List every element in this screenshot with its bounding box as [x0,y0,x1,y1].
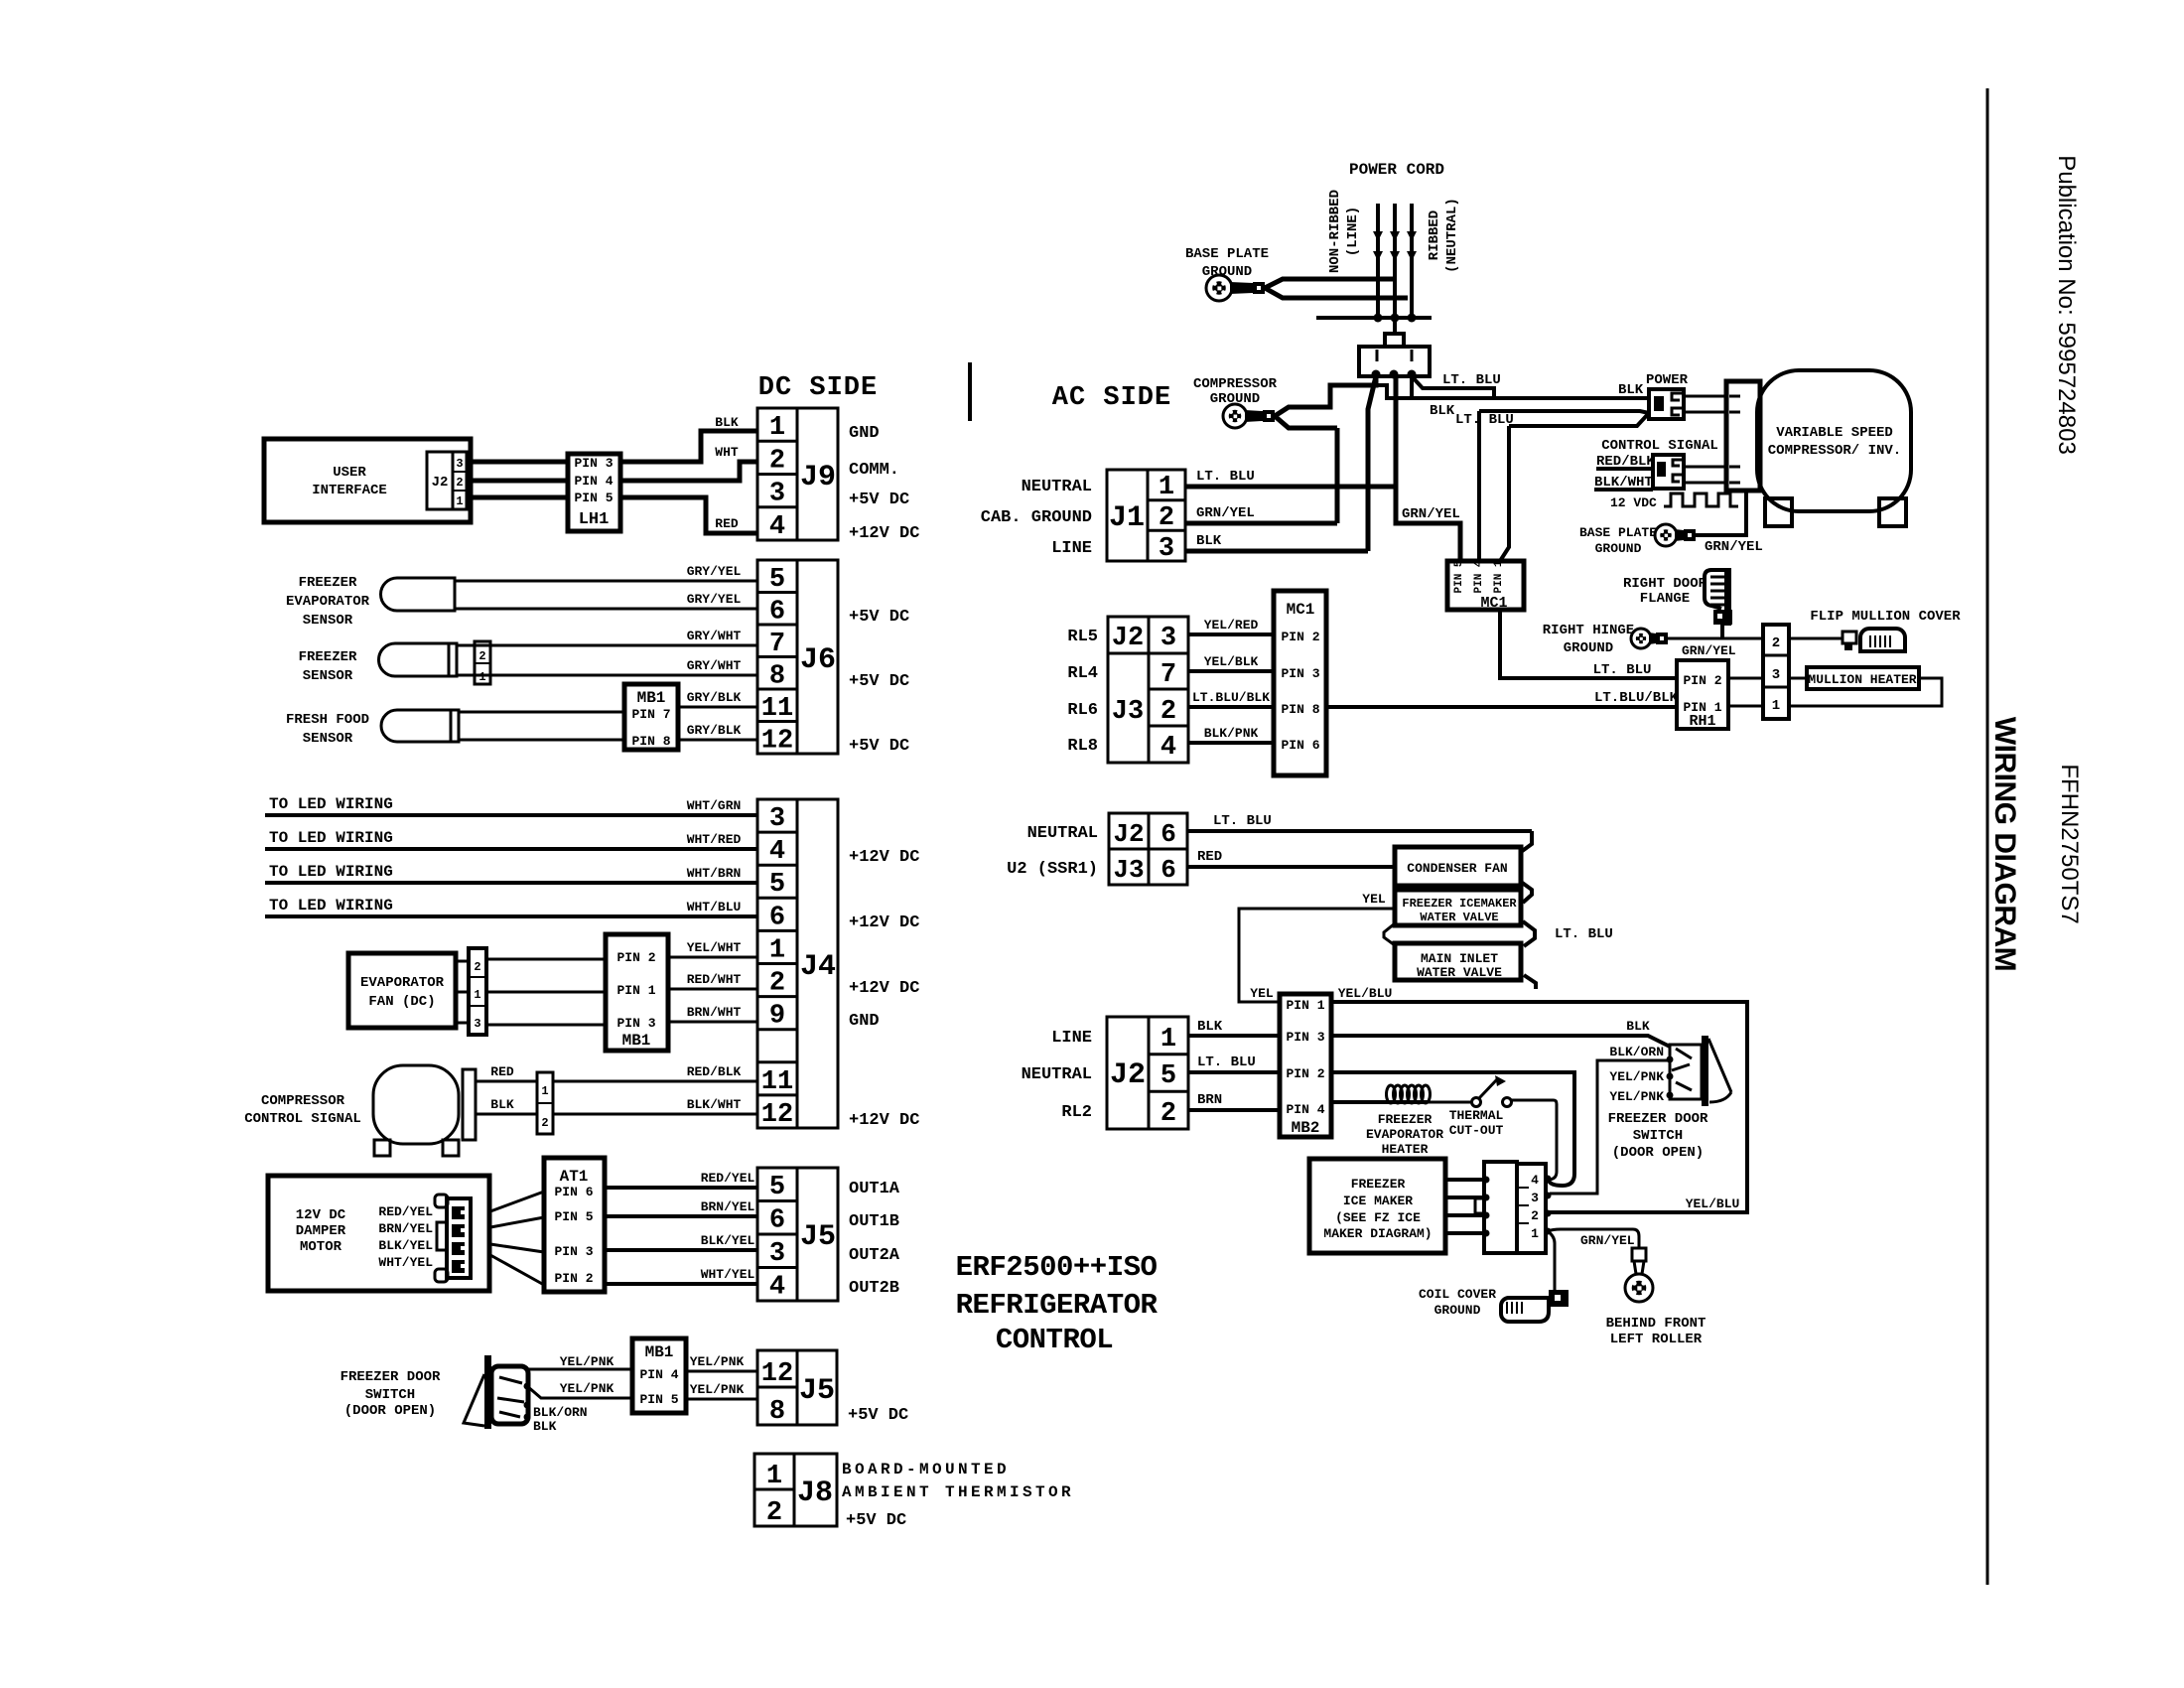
svg-text:BLK/YEL: BLK/YEL [378,1238,433,1253]
svg-text:AMBIENT THERMISTOR: AMBIENT THERMISTOR [842,1483,1074,1501]
svg-text:POWER CORD: POWER CORD [1349,161,1444,179]
base plate ground lug (top) [1206,275,1232,301]
wire BLK compressor [476,1113,537,1116]
svg-text:PIN 5: PIN 5 [639,1392,678,1407]
connector J2 (line/neutral/RL2) [1107,1017,1188,1129]
svg-text:BRN/WHT: BRN/WHT [687,1005,742,1020]
svg-text:RL8: RL8 [1067,737,1098,756]
wire fresh food sensor to MB1 pin7 [459,711,624,714]
svg-text:FRESH FOOD: FRESH FOOD [286,712,369,728]
svg-text:PIN 2: PIN 2 [1286,1066,1324,1081]
svg-text:BLK/ORN: BLK/ORN [533,1405,588,1420]
power plug tab [1385,334,1404,347]
svg-text:FREEZER DOOR: FREEZER DOOR [341,1369,441,1385]
svg-text:YEL/PNK: YEL/PNK [560,1381,614,1396]
wire damper to AT1 PIN 3 [490,1244,544,1252]
wire LT. BLU to MB2 PIN 2 [1188,1070,1280,1074]
svg-text:PIN 8: PIN 8 [631,734,670,749]
svg-text:LT. BLU: LT. BLU [1455,412,1514,428]
wire LT. BLU plug to junction [1412,376,1494,398]
wire LT. BLU down to MC1 PIN 4 [1477,411,1481,561]
svg-text:MB1: MB1 [622,1032,651,1050]
svg-text:WHT/RED: WHT/RED [687,832,742,847]
freezer evaporator heater coil [1387,1085,1396,1103]
connector LH1 [568,454,620,531]
damper connector [447,1198,471,1278]
svg-text:PIN 4: PIN 4 [1473,560,1485,593]
svg-text:USER: USER [333,465,366,481]
wire mullion heater loop to strip pin1 [1789,678,1942,706]
svg-text:12: 12 [761,1359,793,1389]
svg-text:8: 8 [769,1397,785,1427]
svg-text:LT. BLU: LT. BLU [1197,1055,1256,1070]
wire GRN/YEL J1 pin2 [1185,521,1337,526]
svg-text:LT. BLU: LT. BLU [1196,469,1255,485]
wire LT. BLU to POWER connector lower pin [1479,411,1649,413]
wire YEL/WHT to J4 pin1 [668,956,757,959]
svg-text:GRN/YEL: GRN/YEL [1580,1233,1635,1248]
connector strip 2/3/1 [1763,625,1789,719]
wire YEL/BLU loop MB2 PIN1 to ice maker pin2 [1331,1002,1747,1212]
wire RED LH1 to J9 pin4 [620,497,757,533]
svg-text:J2: J2 [432,475,449,491]
wire YEL to MB2 PIN 1 [1239,909,1395,1002]
svg-text:PIN 1: PIN 1 [616,983,655,998]
wire LT. BLU neutral bus [1187,829,1532,833]
svg-text:FLIP MULLION COVER: FLIP MULLION COVER [1810,609,1961,625]
svg-text:PIN 1: PIN 1 [1286,998,1324,1013]
svg-text:CONTROL SIGNAL: CONTROL SIGNAL [244,1111,361,1127]
svg-text:SENSOR: SENSOR [303,668,353,684]
svg-text:5: 5 [769,1173,785,1202]
wire GRN/YEL ice maker pin1 to roller lug [1548,1229,1639,1249]
svg-text:NEUTRAL: NEUTRAL [1027,824,1098,843]
svg-text:BRN/YEL: BRN/YEL [378,1221,433,1236]
svg-text:RED/YEL: RED/YEL [378,1204,433,1219]
svg-text:DAMPER: DAMPER [296,1223,346,1239]
power cord line 2 [1393,204,1397,318]
variable speed compressor blob [1757,370,1911,511]
wire fan to connector pin2 [456,960,469,963]
svg-text:AT1: AT1 [560,1168,589,1186]
svg-text:PIN 6: PIN 6 [1281,738,1319,753]
svg-text:BRN/YEL: BRN/YEL [701,1199,755,1214]
wire J2 pin2 to LH1 PIN 4 [467,479,568,484]
svg-text:GRY/BLK: GRY/BLK [687,690,742,705]
freezer ice maker box [1309,1159,1445,1253]
power plug body [1359,347,1430,376]
svg-text:12: 12 [761,727,793,757]
svg-text:EVAPORATOR: EVAPORATOR [1366,1127,1443,1142]
svg-text:11: 11 [761,1067,793,1097]
wire BLK J1 pin3 [1185,549,1368,554]
svg-text:4: 4 [769,512,785,542]
svg-text:PIN 2: PIN 2 [554,1271,593,1286]
svg-text:FREEZER: FREEZER [299,649,357,665]
svg-text:SENSOR: SENSOR [303,613,353,629]
wire LT. BLU MC1 to RH1 PIN 2 [1500,610,1677,678]
svg-text:BLK: BLK [1618,382,1644,398]
svg-text:COMPRESSOR/ INV.: COMPRESSOR/ INV. [1768,443,1901,459]
svg-text:3: 3 [1531,1191,1539,1205]
wire GRY/YEL to J6 pin5 [455,580,757,583]
svg-text:GRY/WHT: GRY/WHT [687,658,742,673]
wire LT. BLU J1 pin1 neutral [1185,485,1398,490]
svg-text:BLK: BLK [490,1097,514,1112]
wire BLK LH1 to J9 pin1 [620,431,757,462]
svg-text:GROUND: GROUND [1434,1303,1481,1318]
svg-text:+5V DC: +5V DC [849,672,909,691]
svg-text:FREEZER: FREEZER [299,575,357,591]
svg-text:FAN (DC): FAN (DC) [368,994,435,1010]
svg-text:J5: J5 [799,1374,835,1408]
svg-text:RED: RED [490,1064,514,1079]
svg-text:1: 1 [456,494,463,508]
svg-text:GND: GND [849,424,880,443]
svg-text:MB1: MB1 [637,689,666,707]
compressor foot right (inv) [1879,498,1906,526]
svg-text:11: 11 [761,694,793,724]
svg-text:RED: RED [1197,849,1222,865]
wire RED compressor [476,1080,537,1083]
wire BRN/YEL to J5 pin6 [605,1214,757,1218]
power cord line 1 [1376,204,1380,318]
svg-text:2: 2 [1159,503,1174,533]
flip mullion cover icon [1860,629,1905,651]
wire power connector to inverter (top) [1684,395,1726,398]
svg-text:RED: RED [715,516,739,531]
svg-text:2: 2 [766,1498,782,1528]
wire GRY/WHT to J6 pin8 [457,674,757,677]
wire GRY/BLK to J6 pin12 [678,739,757,742]
wire GRN/YEL base plate to inverter [1696,491,1746,535]
connector J6 [757,560,838,754]
svg-text:CONTROL: CONTROL [996,1324,1113,1356]
separator line between DC and AC side [968,362,972,421]
wire BLK/ORN to ice maker pin3 [1550,1060,1670,1194]
svg-text:YEL/WHT: YEL/WHT [687,940,742,955]
connector J2/J3 (relays) [1108,617,1188,763]
svg-text:YEL/PNK: YEL/PNK [690,1354,745,1369]
compressor foot left (inv) [1765,498,1792,526]
svg-text:LT. BLU: LT. BLU [1555,926,1613,942]
wire BLK/YEL to J5 pin3 [605,1248,757,1252]
svg-text:GRN/YEL: GRN/YEL [1705,539,1763,555]
svg-text:WHT/BRN: WHT/BRN [687,866,742,881]
svg-text:BLK/PNK: BLK/PNK [1204,726,1259,741]
svg-text:2: 2 [769,446,785,476]
wire connector to MB1 PIN 1 [486,991,606,994]
svg-text:LINE: LINE [1051,539,1092,558]
svg-text:BLK: BLK [1197,1019,1223,1035]
svg-text:9: 9 [769,1002,785,1032]
svg-text:+12V DC: +12V DC [849,914,919,932]
svg-text:GRN/YEL: GRN/YEL [1682,643,1736,658]
damper motor box [268,1176,489,1291]
svg-text:+5V DC: +5V DC [846,1511,906,1530]
svg-text:1: 1 [1160,1025,1176,1055]
wire BLK to MB2 PIN 3 [1188,1034,1280,1038]
svg-text:7: 7 [769,630,785,659]
power connector [1649,389,1684,419]
wire RED/YEL to J5 pin5 [605,1186,757,1190]
connector J4 [757,799,838,1128]
svg-text:RIGHT DOOR: RIGHT DOOR [1623,576,1707,592]
svg-text:6: 6 [1160,855,1176,885]
svg-text:PIN 3: PIN 3 [554,1244,593,1259]
svg-text:J3: J3 [1112,697,1144,727]
svg-text:5: 5 [1160,1061,1176,1091]
svg-text:BLK: BLK [1430,403,1455,419]
svg-text:RL4: RL4 [1067,664,1098,683]
svg-text:+12V DC: +12V DC [849,979,919,998]
svg-text:CUT-OUT: CUT-OUT [1449,1123,1504,1138]
svg-text:LEFT ROLLER: LEFT ROLLER [1610,1332,1703,1347]
svg-text:TO LED WIRING: TO LED WIRING [269,829,393,847]
wire power connector to inverter (bottom) [1684,411,1726,414]
svg-text:YEL: YEL [1250,986,1274,1001]
user interface box [264,439,471,522]
wire YEL/PNK MB1 to J5 pin8 [686,1398,757,1401]
svg-text:PIN 5: PIN 5 [554,1209,593,1224]
freezer sensor bulb [379,643,458,676]
svg-text:LT.BLU/BLK: LT.BLU/BLK [1594,690,1679,706]
svg-text:3: 3 [769,804,785,834]
ice maker connector [1484,1162,1517,1253]
svg-text:BASE PLATE: BASE PLATE [1185,246,1269,262]
svg-text:J8: J8 [797,1477,833,1510]
svg-text:BRN: BRN [1197,1092,1222,1108]
svg-text:3: 3 [474,1017,480,1031]
svg-text:NEUTRAL: NEUTRAL [1022,1065,1092,1084]
wire RED/WHT to J4 pin2 [668,988,757,991]
wire MB2 PIN2 to ice maker pin4 [1331,1072,1574,1186]
svg-text:2: 2 [474,960,480,974]
svg-text:MC1: MC1 [1287,601,1315,619]
svg-text:6: 6 [769,1206,785,1236]
svg-text:RH1: RH1 [1689,713,1715,730]
wire ice maker pin1 to coil cover ground [1548,1231,1555,1293]
svg-text:PIN 4: PIN 4 [1286,1102,1324,1117]
svg-text:OUT2B: OUT2B [849,1279,899,1298]
svg-text:YEL: YEL [1362,892,1386,907]
svg-text:PIN 1: PIN 1 [1493,560,1505,593]
wire thermal cutout to ice maker pin4 [1512,1100,1557,1180]
svg-text:2: 2 [1160,697,1176,727]
compressor ground fork lower [1275,416,1337,428]
connector RH1 [1677,660,1728,729]
svg-text:AC SIDE: AC SIDE [1052,383,1171,413]
connector MC1 (lower) [1274,591,1326,775]
connector J2 on user interface [427,452,467,509]
wire damper to AT1 PIN 6 [490,1192,544,1211]
svg-text:1: 1 [766,1462,782,1491]
svg-text:J2: J2 [1112,624,1144,653]
svg-text:YEL/BLU: YEL/BLU [1686,1196,1740,1211]
svg-text:PIN 6: PIN 6 [554,1185,593,1199]
compressor blob [373,1065,459,1144]
freezer evaporator sensor bulb [381,578,456,611]
connector J1 [1107,470,1185,561]
svg-text:J3: J3 [1113,855,1144,885]
wire MB2 PIN4 to heater [1331,1100,1388,1104]
svg-text:CAB. GROUND: CAB. GROUND [981,508,1092,527]
svg-text:RL2: RL2 [1061,1103,1092,1122]
svg-text:GRY/YEL: GRY/YEL [687,564,742,579]
svg-text:WATER VALVE: WATER VALVE [1417,965,1502,980]
svg-text:BOARD-MOUNTED: BOARD-MOUNTED [842,1461,1010,1478]
svg-text:VARIABLE SPEED: VARIABLE SPEED [1776,425,1893,441]
compressor foot left [374,1140,390,1156]
wire WHT LH1 to J9 pin2 [620,462,757,481]
svg-text:12V DC: 12V DC [296,1207,346,1223]
svg-text:YEL/BLU: YEL/BLU [1338,986,1393,1001]
svg-text:HEATER: HEATER [1382,1142,1429,1157]
svg-text:SWITCH: SWITCH [365,1387,415,1403]
svg-text:MAKER DIAGRAM): MAKER DIAGRAM) [1323,1226,1432,1241]
power cord line 3 [1410,204,1414,318]
svg-text:INTERFACE: INTERFACE [312,483,387,498]
svg-text:FREEZER: FREEZER [1378,1112,1433,1127]
wire BLK/WHT to J4 pin12 [553,1113,757,1116]
wire RED/BLK to J4 pin11 [553,1080,757,1083]
svg-text:+5V DC: +5V DC [849,737,909,756]
wire YEL/PNK switch to MB1 PIN 5 [527,1386,632,1398]
svg-text:1: 1 [541,1084,548,1098]
svg-text:RL5: RL5 [1067,628,1098,646]
svg-text:1: 1 [1531,1226,1539,1241]
svg-text:YEL/PNK: YEL/PNK [560,1354,614,1369]
svg-text:J2: J2 [1110,1058,1146,1092]
power plug slots [1376,350,1379,361]
wires ice maker to connector [1445,1178,1484,1182]
wire GRY/WHT to J6 pin7 [457,644,757,647]
condenser fan box [1395,847,1521,886]
wire BLK to POWER connector [1376,385,1649,398]
right margin rule [1986,88,1989,1585]
svg-text:DC SIDE: DC SIDE [758,373,878,403]
svg-text:COIL COVER: COIL COVER [1419,1287,1496,1302]
wire RED to condenser fan [1187,865,1395,869]
svg-text:PIN 3: PIN 3 [1286,1030,1324,1045]
svg-text:Publication No: 5995724803: Publication No: 5995724803 [2053,155,2080,455]
base plate ground lug (mid) [1655,524,1677,546]
svg-text:WIRING DIAGRAM: WIRING DIAGRAM [1988,717,2021,971]
svg-text:GND: GND [849,1012,880,1031]
svg-text:PIN 5: PIN 5 [574,491,613,505]
svg-text:MULLION HEATER: MULLION HEATER [1808,672,1916,687]
svg-text:MOTOR: MOTOR [300,1239,342,1255]
base plate ground fork wires [1265,279,1395,288]
wire RH1 PIN2 to strip [1728,677,1763,680]
svg-text:FREEZER ICEMAKER: FREEZER ICEMAKER [1402,897,1517,911]
svg-text:+5V DC: +5V DC [849,608,909,627]
svg-text:MAIN INLET: MAIN INLET [1421,951,1498,966]
svg-text:5: 5 [769,565,785,595]
wire BRN/WHT to J4 pin9 [668,1021,757,1024]
svg-text:J4: J4 [800,950,836,984]
svg-text:BLK/YEL: BLK/YEL [701,1233,755,1248]
behind front left roller lug [1632,1248,1646,1261]
svg-text:+12V DC: +12V DC [849,524,919,543]
left bus between valve boxes [1384,923,1395,945]
connector MB2 [1280,994,1331,1137]
svg-text:GRN/YEL: GRN/YEL [1196,505,1255,521]
svg-text:PIN 4: PIN 4 [574,474,613,489]
svg-text:7: 7 [1160,660,1176,690]
svg-text:6: 6 [769,903,785,932]
svg-text:NON-RIBBED: NON-RIBBED [1327,190,1343,273]
svg-text:LT. BLU: LT. BLU [1213,813,1272,829]
svg-text:6: 6 [769,598,785,628]
svg-text:J5: J5 [800,1220,836,1254]
svg-text:12: 12 [761,1100,793,1130]
svg-text:2: 2 [456,476,463,490]
svg-text:WHT/YEL: WHT/YEL [378,1255,433,1270]
svg-text:LH1: LH1 [579,510,610,529]
svg-text:2: 2 [1160,1099,1176,1129]
svg-text:YEL/BLK: YEL/BLK [1204,654,1259,669]
wire BLK up to plug [1368,376,1376,551]
connector MC1 (upper) [1447,561,1524,610]
right door flange icon [1705,570,1729,609]
svg-text:4: 4 [1160,733,1176,763]
svg-text:PIN 3: PIN 3 [1281,666,1319,681]
svg-text:MB2: MB2 [1292,1119,1320,1137]
svg-text:GRY/BLK: GRY/BLK [687,723,742,738]
svg-text:GROUND: GROUND [1564,640,1613,656]
svg-text:1: 1 [478,670,485,684]
wire fan to connector pin1 [456,991,469,994]
svg-text:WATER VALVE: WATER VALVE [1420,911,1498,924]
wire GRN/YEL fork vertical [1335,428,1340,523]
wire YEL/PNK MB1 to J5 pin12 [686,1370,757,1373]
compressor connector [463,1069,476,1140]
power cord bus [1316,316,1432,320]
wire WHT/YEL to J5 pin4 [605,1282,757,1286]
svg-text:BLK: BLK [715,415,739,430]
svg-text:BLK/WHT: BLK/WHT [687,1097,742,1112]
wire BRN to MB2 PIN 4 [1188,1108,1280,1112]
svg-text:COMPRESSOR: COMPRESSOR [261,1093,345,1109]
svg-text:8: 8 [769,662,785,692]
compressor ground lug [1223,404,1247,428]
svg-text:FLANGE: FLANGE [1640,591,1690,607]
svg-text:PIN 8: PIN 8 [1281,702,1319,717]
svg-text:RIBBED: RIBBED [1427,211,1442,260]
svg-text:LT.BLU/BLK: LT.BLU/BLK [1192,690,1270,705]
svg-text:GRY/WHT: GRY/WHT [687,629,742,643]
compressor foot right [443,1140,459,1156]
svg-text:CONDENSER FAN: CONDENSER FAN [1407,861,1507,876]
svg-text:U2 (SSR1): U2 (SSR1) [1007,860,1098,879]
wire LT.BLU/BLK MC1 to RH1 PIN 1 [1326,705,1677,709]
svg-text:RIGHT HINGE: RIGHT HINGE [1543,623,1634,638]
stub bus to plug [1393,318,1397,334]
svg-text:WHT/YEL: WHT/YEL [701,1267,755,1282]
wire strip pin3 to mullion heater [1789,677,1807,680]
svg-text:PIN 3: PIN 3 [574,456,613,471]
svg-text:YEL/PNK: YEL/PNK [690,1382,745,1397]
svg-text:YEL/PNK: YEL/PNK [1609,1089,1664,1104]
svg-text:BLK: BLK [533,1419,557,1434]
wire YEL/BLK to MC1 PIN 3 [1188,669,1274,673]
svg-text:1: 1 [474,988,480,1002]
wire YEL/RED to MC1 PIN 2 [1188,633,1274,636]
svg-text:1: 1 [1159,473,1174,502]
svg-text:OUT1A: OUT1A [849,1180,900,1198]
svg-text:1: 1 [769,413,785,443]
